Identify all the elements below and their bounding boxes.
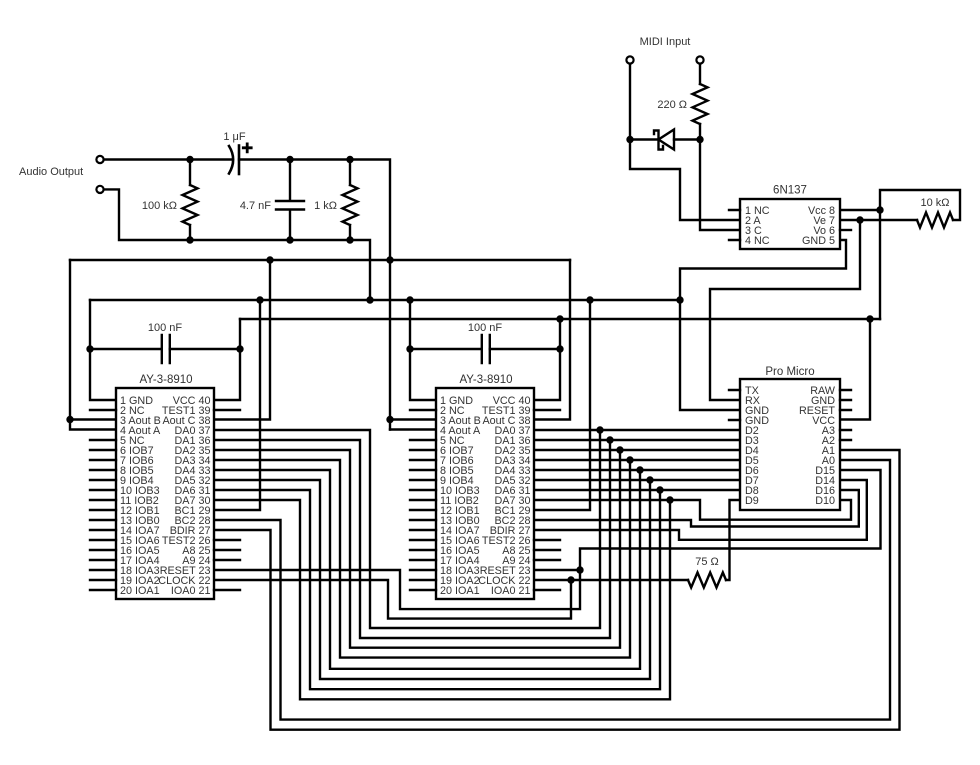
wire data bus DA3 loop (chip1 DA3 via bottom bus) [214, 460, 630, 658]
AY-3-8910 chip U1 [116, 388, 214, 599]
svg-text:20 IOA1: 20 IOA1 [120, 585, 160, 597]
diode D1 (schottky) [630, 138, 700, 140]
wire data bus DA7 loop (chip1 DA7 via bottom bus) [214, 500, 670, 699]
wire audio top rail segment A (tip to C2) [104, 158, 231, 160]
wire DA7 to pro micro D10 jog [670, 500, 851, 520]
resistor R2 1 kOhm [343, 160, 358, 241]
wire chip2 pin 38 Aout C vertical [534, 260, 570, 420]
wire VCC rail [240, 318, 880, 320]
svg-text:AY-3-8910: AY-3-8910 [459, 374, 512, 386]
svg-text:AY-3-8910: AY-3-8910 [139, 374, 192, 386]
wire audio sleeve to ground rail [104, 189, 370, 300]
wire pro micro GND pin vertical [680, 300, 740, 410]
terminal audio output sleeve [96, 186, 103, 193]
U4 right stub Vo 6 [840, 229, 851, 231]
wire chip2 BC2 to pro micro D16 [534, 490, 859, 527]
junction audio mix rail / audio top [386, 256, 393, 263]
wire chip2 BDIR to pro micro D14 [534, 480, 867, 540]
junction chip2 Aout B junction [386, 416, 393, 423]
wire data bus DA2 loop (chip1 DA2 via bottom bus) [214, 450, 620, 648]
junction diode rail / MIDI A [626, 136, 633, 143]
wire chip2 pin 29 BC1 to ground vertical [534, 300, 590, 510]
wire data bus DA6 row (chip2 DA6 to pro micro D8) [534, 489, 740, 491]
capacitor C2 1 uF polarized [229, 146, 233, 174]
svg-text:MIDI Input: MIDI Input [640, 36, 691, 48]
wire opto pin 7 Ve to R4 [840, 219, 917, 221]
wire data bus DA6 loop (chip1 DA6 via bottom bus) [214, 490, 660, 689]
junction C5 rail / VCC vertical [556, 345, 563, 352]
wire data bus DA4 row (chip2 DA4 to pro micro D6) [534, 469, 740, 471]
junction audio top / R2 [346, 156, 353, 163]
junction data bus DA2 junction [616, 446, 623, 453]
svg-text:Pro Micro: Pro Micro [765, 366, 814, 378]
U2 right TEST/A8/A9/IOA0 pin stubs [534, 410, 560, 590]
optocoupler U4 6N137 [740, 199, 840, 249]
svg-text:Audio Output: Audio Output [19, 166, 83, 178]
wire audio mix rail [70, 259, 570, 261]
U4 left stubs 1 NC, 4 NC [729, 210, 740, 240]
junction data bus DA7 junction [666, 496, 673, 503]
wire data bus DA7 row (chip2 DA7 to junction) [534, 499, 670, 501]
wire CLOCK row chip2 to R5 [534, 579, 688, 581]
U1 left NC/IO pin stubs [90, 410, 116, 590]
terminal audio output tip [96, 156, 103, 163]
svg-text:20 IOA1: 20 IOA1 [440, 585, 480, 597]
junction C5 rail / GND vertical [406, 345, 413, 352]
wire MIDI A to opto anode [630, 64, 740, 220]
wire chip2 pin 1 GND vertical [410, 300, 436, 400]
wire RESET net (chip1/chip2 RESET to pro micro D15) [214, 470, 881, 609]
svg-text:6N137: 6N137 [773, 185, 807, 197]
wire data bus DA4 loop (chip1 DA4 via bottom bus) [214, 470, 640, 669]
junction diode rail / MIDI B [696, 136, 703, 143]
junction ground rail / chip2 GND [406, 296, 413, 303]
wire chip1 pin 29 BC1 to ground vertical [214, 300, 260, 510]
wire pro micro VCC pin vertical [840, 319, 870, 420]
svg-text:220 Ω: 220 Ω [657, 99, 687, 111]
svg-text:1 μF: 1 μF [223, 131, 246, 143]
junction audio mix rail / chip1 Aout C [266, 256, 273, 263]
wire R3 to opto cathode [700, 124, 740, 230]
svg-text:D9: D9 [745, 495, 759, 507]
wire chip2 pin 3 Aout B connection [390, 418, 436, 420]
svg-text:4.7 nF: 4.7 nF [240, 200, 271, 212]
wire C5 rail right [490, 348, 560, 350]
wire MIDI B to R3 [699, 64, 701, 84]
svg-text:4 NC: 4 NC [745, 235, 770, 247]
svg-text:D10: D10 [815, 495, 835, 507]
capacitor C3 4.7 nF [276, 160, 304, 241]
wire chip1 pin 38 Aout C vertical [214, 260, 270, 420]
junction opto Ve junction [856, 216, 863, 223]
wire C5 rail left [410, 348, 482, 350]
wire CLOCK net loop (chip1 CLOCK via bottom bus) [214, 580, 571, 619]
wire chip1 pin 1 GND vertical [90, 300, 116, 400]
wire C4 rail right [170, 348, 240, 350]
wire chip2 pin 40 VCC vertical [534, 319, 560, 400]
svg-text:100 nF: 100 nF [148, 322, 183, 334]
junction ground rail / audio sleeve [366, 296, 373, 303]
junction data bus DA5 junction [646, 476, 653, 483]
wire audio top rail segment B (C2 to chip2 Aout A/B vertical) [239, 160, 390, 430]
wire opto pin 5 GND return [680, 240, 846, 300]
junction audio top / C3 [286, 156, 293, 163]
Pro Micro module U3 [740, 379, 840, 510]
svg-text:75 Ω: 75 Ω [695, 556, 719, 568]
C2 polarity plus sign [243, 144, 251, 152]
junction opto Vcc loop junction [876, 206, 883, 213]
wire R5 to pro micro D9 [726, 500, 740, 580]
U3 right stubs RAW,GND,RESET,A3,A2 [840, 390, 851, 440]
terminal MIDI input pin B [696, 56, 703, 63]
wire chip1 pin 40 VCC vertical [214, 319, 240, 400]
U3 left stubs TX,GND [729, 390, 740, 420]
junction C4 rail / VCC vertical [236, 345, 243, 352]
junction RESET net junction [576, 566, 583, 573]
junction ground rail / chip1 BC1 [256, 296, 263, 303]
junction data bus DA0 junction [596, 426, 603, 433]
wire data bus DA5 row (chip2 DA5 to pro micro D7) [534, 479, 740, 481]
U1 right TEST/A8/A9/IOA0 pin stubs [214, 410, 240, 590]
junction VCC rail / pro micro VCC [866, 315, 873, 322]
wire ground rail [90, 299, 680, 301]
wire chip2 pin 4 Aout A connection [390, 428, 436, 430]
junction data bus DA6 junction [656, 486, 663, 493]
resistor R1 100 kOhm [183, 160, 198, 241]
wire data bus DA2 row (chip2 DA2 to pro micro D4) [534, 449, 740, 451]
svg-text:1 kΩ: 1 kΩ [314, 200, 337, 212]
junction audio bottom / R1 [186, 236, 193, 243]
capacitor C4 100 nF [162, 335, 170, 363]
wire data bus DA5 loop (chip1 DA5 via bottom bus) [214, 480, 650, 679]
wire R4 to Vcc loop [880, 190, 960, 220]
svg-text:IOA0 21: IOA0 21 [491, 585, 531, 597]
wire data bus DA1 loop (chip1 DA1 via bottom bus) [214, 440, 610, 638]
junction data bus DA3 junction [626, 456, 633, 463]
svg-text:IOA0 21: IOA0 21 [171, 585, 211, 597]
svg-text:GND 5: GND 5 [802, 235, 835, 247]
junction chip1 Aout B junction [66, 416, 73, 423]
terminal MIDI input pin A [626, 56, 633, 63]
wire chip2 RESET pin branch [534, 569, 580, 571]
svg-text:100 kΩ: 100 kΩ [142, 200, 177, 212]
junction C4 rail / GND vertical [86, 345, 93, 352]
junction audio bottom / R2 [346, 236, 353, 243]
wire data bus DA0 row (chip2 DA0 to pro micro D2) [534, 429, 740, 431]
wire chip1 BC2 to pro micro A0 [214, 460, 890, 720]
junction data bus DA1 junction [606, 436, 613, 443]
junction VCC rail / chip2 VCC [556, 315, 563, 322]
U2 left NC/IO pin stubs [410, 410, 436, 590]
wire chip1 pin 3 Aout B connection [70, 418, 116, 420]
resistor R5 75 Ohm [688, 573, 726, 588]
wire data bus DA0 loop (chip1 DA0 via bottom bus) [214, 430, 600, 628]
wire data bus DA3 row (chip2 DA3 to pro micro D5) [534, 459, 740, 461]
wire opto Ve to pro micro RX [710, 220, 860, 400]
wire opto pin 8 Vcc vertical [840, 210, 880, 319]
svg-text:10 kΩ: 10 kΩ [920, 197, 949, 209]
wire chip1 BDIR to pro micro A1 [214, 450, 900, 730]
junction ground rail / chip2 BC1 [586, 296, 593, 303]
wire data bus DA1 row (chip2 DA1 to pro micro D3) [534, 439, 740, 441]
AY-3-8910 chip U2 [436, 388, 534, 599]
junction audio bottom / C3 [286, 236, 293, 243]
junction CLOCK net junction [567, 576, 574, 583]
junction data bus DA4 junction [636, 466, 643, 473]
resistor R3 220 Ohm [693, 84, 708, 124]
capacitor C5 100 nF [482, 335, 490, 363]
svg-text:100 nF: 100 nF [468, 322, 503, 334]
junction audio top / R1 [186, 156, 193, 163]
wire chip1 Aout A/B vertical [70, 260, 116, 430]
wire C4 rail left [90, 348, 162, 350]
resistor R4 10 kOhm [917, 213, 953, 228]
junction ground rail / opto GND [676, 296, 683, 303]
